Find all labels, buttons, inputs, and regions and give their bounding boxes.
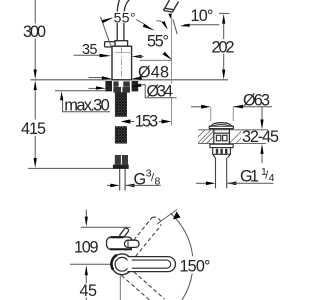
svg-text:150°: 150°	[180, 258, 211, 276]
wire dome rim line	[209, 125, 233, 127]
node arrow down tip of 300 at deck	[34, 70, 37, 80]
node arrow of 10-degree leader	[180, 24, 190, 27]
hose end connector right	[122, 155, 128, 165]
wire deck surface line y=79.8	[31, 79, 229, 81]
lever handle (side view, pointing left)	[105, 42, 115, 47]
node arrow Ø34 left	[96, 86, 106, 89]
wire body centerline dash-dot	[121, 48, 123, 80]
node arrow up tip of 415 at deck	[34, 80, 37, 90]
top-view base ring inner	[115, 257, 129, 271]
node label G3/8	[134, 167, 161, 188]
node arrow 109 down	[85, 217, 88, 227]
hatching left of drain	[198, 130, 267, 144]
mounting washer right	[132, 81, 139, 91]
top-view handle body	[107, 237, 133, 250]
wire extension line from nozzle x=171.4	[170, 14, 172, 126]
node arrow on L2	[143, 24, 155, 31]
svg-text:300: 300	[23, 23, 46, 41]
node arrow G1 1/4 left	[206, 182, 216, 186]
wire thin line to arc end	[157, 210, 177, 225]
top-view handle top edge	[111, 236, 124, 238]
node arrow 45 up	[85, 265, 88, 275]
drain tailpipe	[216, 158, 227, 189]
mounting washer left	[105, 81, 112, 91]
wire extension line dome right	[232, 107, 234, 121]
wire bracket of max.30	[63, 97, 111, 112]
wire 153 line right	[159, 121, 162, 123]
wire 45 dim line	[85, 275, 87, 283]
node label 55-degree first	[113, 9, 138, 25]
capacitor-like collar (cartridge cap)	[115, 41, 128, 47]
top-view handle bottom band	[110, 248, 132, 250]
node arrow down of 202	[222, 70, 225, 80]
hose crimp left	[113, 87, 121, 93]
hose end connector left	[115, 155, 121, 165]
wire 150-degree arc lower	[182, 274, 192, 300]
node arrow Ø48 right	[132, 76, 142, 79]
dashed swivel spout lower	[122, 272, 165, 300]
wire center reference line y=264.3	[70, 263, 112, 265]
node arrow 153 left	[121, 119, 131, 123]
svg-text:109: 109	[74, 238, 99, 256]
mounting bolt left	[113, 81, 118, 86]
node arrow Ø34 right	[131, 84, 142, 88]
svg-text:415: 415	[21, 120, 46, 138]
wire 150-degree arc upper	[170, 213, 192, 256]
hose end base	[113, 165, 129, 169]
drain dome cap	[209, 123, 233, 129]
hose crimp right	[122, 87, 130, 93]
sink deck hatched section	[198, 130, 268, 144]
dashed swivel spout upper	[126, 217, 161, 256]
wire arc of second 55-degree	[157, 21, 167, 26]
node label 153 with arrows	[133, 113, 160, 131]
faucet body	[112, 46, 132, 80]
wire bracket of Ø34	[140, 85, 177, 98]
faucet column (spout riser)	[117, 0, 129, 41]
top-view base ring thick SW arc	[110, 255, 119, 270]
wire G3/8 dim leader left	[107, 184, 112, 186]
spout nozzle (outlet, tilted)	[164, 0, 179, 12]
node arrow at body right (35 dim)	[132, 55, 142, 58]
wire dome base line	[209, 128, 233, 130]
node arrow down tip of 415 at hose end	[34, 158, 37, 168]
node arrow A1 of first 55-degree dimension	[102, 17, 115, 23]
drain taper	[213, 154, 231, 158]
svg-text:32-45: 32-45	[242, 128, 279, 146]
node arrow on arc end	[162, 21, 168, 30]
wire leader Ø34 left	[89, 87, 98, 89]
wire dimension line 300 (vertical, x=35)	[34, 0, 36, 71]
node arrow dome-width left	[201, 105, 210, 109]
svg-text:10°: 10°	[191, 7, 214, 25]
wire 55-deg lever position line L1	[101, 17, 112, 49]
wire leader line of 10-degree label	[184, 24, 219, 26]
node arrow max.30 up	[60, 91, 63, 100]
wire grip inner line	[127, 241, 129, 248]
svg-text:Ø48: Ø48	[138, 63, 169, 81]
svg-text:153: 153	[135, 113, 158, 131]
node arrow Ø48 left	[102, 76, 112, 79]
wire 45 dim line lower	[85, 298, 87, 300]
node arrow G3/8 left	[110, 184, 119, 188]
drain body through deck	[214, 129, 230, 144]
wire G1 1/4 leader left	[196, 182, 207, 184]
node thick arrow near Ø48	[163, 52, 173, 61]
node arrow of 35 at body left	[100, 54, 112, 58]
drain body slots	[216, 135, 220, 141]
node arrow up of 202	[222, 14, 225, 24]
node label G1 1/4	[240, 166, 275, 186]
wire leader L2 of second 55-degree	[136, 20, 148, 27]
wire 109 dim upper line	[85, 210, 87, 218]
node arrow 32-45 down	[260, 120, 263, 130]
wire 153 line left	[130, 121, 134, 123]
top-view lever stick	[119, 227, 129, 239]
svg-text:55°: 55°	[147, 33, 169, 51]
svg-text:4: 4	[269, 172, 275, 184]
node arrow 153 right	[162, 119, 172, 123]
top-view base ring outer	[112, 254, 133, 275]
braided hose upper section	[115, 93, 126, 117]
wire hose-end reference line y=168.4	[28, 167, 129, 169]
node arrow G3/8 right	[125, 184, 134, 188]
node label 32-45	[241, 131, 281, 143]
wire back reference line y=227.2	[81, 226, 131, 228]
wire deck underside line y=90.7	[55, 90, 105, 92]
wire G1 1/4 underline	[227, 182, 274, 184]
wire extension line dome left	[210, 107, 212, 121]
node arrow at arc top	[173, 212, 181, 220]
wire leader right of body	[138, 56, 144, 58]
svg-text:202: 202	[212, 38, 235, 56]
node flow arrow under nozzle	[168, 14, 172, 19]
top-view lever grip	[125, 240, 140, 247]
node label Ø34 with bracket	[146, 84, 176, 98]
node arrow G1 1/4 right	[227, 182, 237, 186]
wire leader of 55-deg vertex at deck	[140, 59, 172, 61]
wire G3/8 underline	[125, 184, 161, 186]
wire Ø63 underline leader	[233, 106, 272, 108]
wire leader of 35	[74, 54, 102, 56]
wire 202 top tick	[219, 12, 230, 14]
braided hose lower section	[115, 127, 126, 144]
mounting bolt right	[123, 81, 130, 86]
svg-text:55°: 55°	[114, 9, 136, 25]
wire dimension line 415 (vertical, x=35)	[34, 91, 36, 158]
node arrow 32-45 up	[260, 144, 263, 154]
wire Ø63 leader left part	[191, 106, 203, 108]
node arrow Ø63 (points left at extension)	[234, 105, 244, 109]
svg-text:45: 45	[80, 282, 98, 300]
top-view spout inner	[132, 260, 171, 268]
wire body seam	[115, 52, 132, 54]
drain flange below deck	[210, 144, 233, 147]
wire 10-degree tilted axis line	[173, 19, 177, 34]
drain slotted ring	[213, 148, 231, 155]
wire 32-45 dimension	[261, 107, 263, 163]
wire leader Ø48 left	[89, 77, 104, 79]
supply pipe below hoses	[120, 169, 125, 191]
wire 202 dimension line	[223, 24, 225, 70]
wire front body line below ring	[119, 275, 121, 300]
svg-text:G: G	[134, 171, 147, 189]
drain ring slots	[216, 149, 228, 154]
top-view spout outer	[128, 257, 176, 272]
